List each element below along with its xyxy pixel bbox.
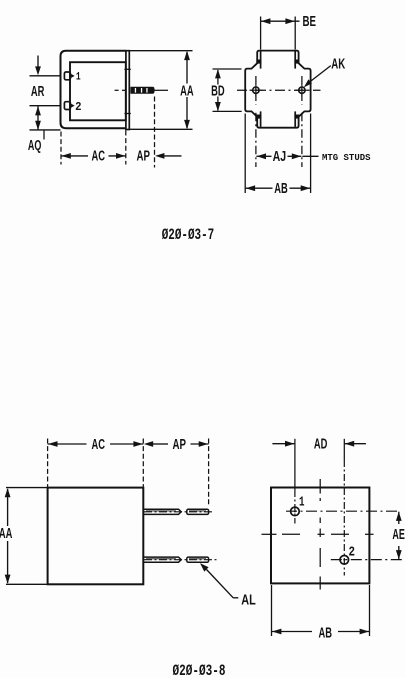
dimension AB (bottom): [272, 585, 370, 636]
svg-text:AC: AC: [92, 149, 106, 165]
flange notch tick lower: [124, 113, 130, 115]
mounting hole left: [250, 84, 263, 97]
svg-text:AP: AP: [173, 437, 187, 453]
dimension AE: [398, 512, 400, 560]
vertical centerline: [319, 479, 321, 590]
svg-text:BE: BE: [303, 14, 317, 30]
hole 1 horizontal centerline / AE extension: [286, 510, 399, 512]
mounting hole right (AK): [296, 84, 309, 97]
dimension AD: [272, 443, 366, 445]
svg-text:1: 1: [299, 496, 305, 511]
body bottom extension line (left): [30, 129, 61, 131]
dimension AA (top figure): [130, 51, 193, 130]
svg-text:AE: AE: [392, 527, 405, 543]
svg-text:AP: AP: [137, 149, 151, 165]
terminal 1 lug: [64, 72, 74, 80]
svg-text:AL: AL: [241, 593, 256, 609]
dimension AR: [37, 56, 39, 69]
dimension AA (bottom figure): [6, 488, 47, 585]
svg-text:AB: AB: [318, 626, 332, 642]
svg-text:AA: AA: [0, 526, 12, 542]
svg-text:Ø2Ø-Ø3-8: Ø2Ø-Ø3-8: [173, 662, 226, 678]
terminal hole 1: [291, 507, 300, 516]
terminal 2 extension line: [30, 105, 61, 107]
AK leader: [309, 66, 331, 83]
svg-text:2: 2: [348, 545, 355, 560]
svg-text:AQ: AQ: [28, 138, 42, 154]
flange notch tick upper: [124, 68, 130, 70]
relay cover inner outline: [70, 62, 126, 120]
hole 2 horizontal centerline / AE extension: [331, 559, 402, 561]
svg-text:AK: AK: [331, 56, 345, 72]
terminal hole 2: [340, 556, 349, 565]
hole 1 vertical centerline / AD extension: [294, 439, 296, 490]
terminal 2 lug: [64, 102, 74, 110]
dimension AJ: [256, 155, 318, 157]
svg-text:Ø2Ø-Ø3-7: Ø2Ø-Ø3-7: [162, 226, 215, 244]
vertical centerlines of holes: [256, 76, 302, 167]
capacitor face: [271, 488, 369, 584]
corner ear dark bands: [256, 60, 299, 119]
mounting flange edge-on (double line): [126, 51, 129, 130]
hole 2 vertical centerline / AD extension: [343, 439, 345, 460]
svg-text:AJ: AJ: [273, 149, 287, 165]
dimension BE: [261, 17, 296, 50]
threaded stud: [130, 87, 154, 94]
svg-text:AR: AR: [31, 84, 45, 100]
svg-text:AD: AD: [314, 437, 328, 453]
horizontal centerline: [237, 89, 321, 91]
svg-text:2: 2: [75, 100, 81, 114]
AQ leader: [43, 131, 45, 140]
relay body outline: [61, 51, 126, 129]
terminal upper: [143, 509, 208, 514]
terminal lower: [143, 557, 208, 562]
svg-text:BD: BD: [211, 83, 225, 99]
svg-text:1: 1: [76, 71, 81, 83]
stud centerline: [115, 89, 168, 91]
svg-text:AB: AB: [274, 181, 288, 197]
dimension BD: [213, 69, 242, 111]
dimension AC (bottom figure): [48, 439, 209, 507]
cross-shaped flange outline: [245, 51, 310, 128]
capacitor body: [48, 488, 144, 585]
svg-text:AA: AA: [180, 83, 194, 99]
terminal 1 extension line: [30, 75, 61, 77]
AL leader: [200, 563, 209, 572]
dimension AC (top figure): [61, 97, 155, 168]
dimension AQ arrows: [37, 106, 39, 130]
dimension AP external arrow: [155, 153, 164, 159]
dimension AB (top): [245, 114, 310, 194]
svg-text:AC: AC: [91, 437, 105, 453]
corner ear inner lines: [261, 51, 296, 127]
horizontal centerline: [262, 533, 374, 535]
svg-text:MTG STUDS: MTG STUDS: [322, 152, 371, 163]
